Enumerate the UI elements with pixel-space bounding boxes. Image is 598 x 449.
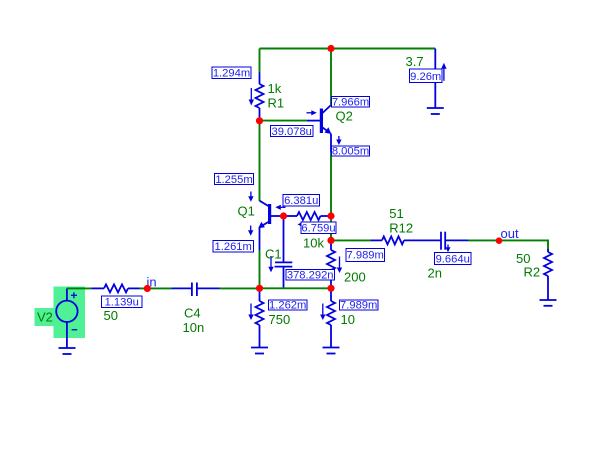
node dot Q1 base xyxy=(280,212,287,219)
wire Q2 emitter down xyxy=(331,134,342,217)
wire node2 to Q2 base xyxy=(260,120,308,122)
value box 1.261m xyxy=(213,241,254,254)
node dot R1 bottom xyxy=(256,117,263,124)
wire R1 top stub xyxy=(259,49,261,74)
node dot top xyxy=(327,45,334,52)
ground 10 xyxy=(323,348,340,354)
transistor Q1 xyxy=(258,201,285,229)
node dot bottom left xyxy=(256,285,263,292)
source V2 xyxy=(56,288,77,347)
value box 8.005m xyxy=(332,146,370,158)
arrow 1.261m xyxy=(248,226,253,236)
svg-text:750: 750 xyxy=(269,312,291,327)
wire Q2 collector to top rail xyxy=(330,49,332,106)
svg-text:10n: 10n xyxy=(183,320,205,335)
svg-text:1k: 1k xyxy=(268,81,282,96)
svg-text:1.139u: 1.139u xyxy=(105,297,139,309)
svg-text:9.664u: 9.664u xyxy=(436,253,470,265)
value box 9.664u xyxy=(435,253,472,266)
wire Q1 emitter down xyxy=(259,228,261,288)
node dot bottom right xyxy=(327,285,334,292)
svg-text:10: 10 xyxy=(341,312,355,327)
svg-text:1.261m: 1.261m xyxy=(215,241,252,253)
svg-text:9.26m: 9.26m xyxy=(410,71,441,83)
resistor R12 xyxy=(371,236,441,244)
wire V2 to source resistor xyxy=(67,287,92,289)
value box 6.381u xyxy=(283,195,320,208)
value box 1.255m xyxy=(215,174,254,186)
svg-text:Q1: Q1 xyxy=(238,204,255,219)
svg-text:51: 51 xyxy=(389,206,403,221)
node dot R12 tap xyxy=(327,237,334,244)
value box 7.989m 10 xyxy=(340,300,379,312)
wire bottom link xyxy=(260,287,332,289)
resistor R1 xyxy=(249,73,264,120)
svg-text:1.255m: 1.255m xyxy=(215,174,252,186)
wire C4 to node xyxy=(220,287,260,289)
svg-text:7.966m: 7.966m xyxy=(332,97,369,109)
svg-text:39.078u: 39.078u xyxy=(271,126,311,138)
value box 1.294m xyxy=(212,67,251,80)
resistor 10k xyxy=(284,212,332,227)
node dot 10k right xyxy=(327,212,334,219)
node dot in xyxy=(144,285,151,292)
ground battery xyxy=(427,108,444,114)
wire to in node xyxy=(140,287,172,289)
ground 750 xyxy=(251,348,268,354)
transistor Q2 xyxy=(307,105,332,134)
wire R12 branch xyxy=(331,239,372,241)
capacitor C4 xyxy=(172,283,220,297)
wire Q1 collector riser xyxy=(259,121,261,201)
value box 1.139u xyxy=(102,296,143,309)
value box 1.262m xyxy=(269,300,308,312)
value box 39.078u xyxy=(271,126,314,138)
node dot out xyxy=(496,237,503,244)
svg-text:6.759u: 6.759u xyxy=(301,223,335,235)
wire 10k right node down xyxy=(330,216,332,240)
svg-text:3.7: 3.7 xyxy=(406,54,424,69)
value box 9.26m xyxy=(410,69,443,83)
svg-text:R12: R12 xyxy=(389,221,413,236)
svg-text:8.005m: 8.005m xyxy=(332,146,369,158)
svg-text:378.292n: 378.292n xyxy=(287,270,334,282)
capacitor 2n xyxy=(441,232,469,253)
svg-text:50: 50 xyxy=(104,308,118,323)
svg-text:C4: C4 xyxy=(184,306,201,321)
value box 7.966m xyxy=(332,97,370,109)
svg-text:C1: C1 xyxy=(265,247,282,262)
svg-text:200: 200 xyxy=(344,270,366,285)
svg-text:R2: R2 xyxy=(524,265,541,280)
svg-text:R1: R1 xyxy=(268,96,285,111)
ground V2 xyxy=(59,348,76,354)
svg-text:1.262m: 1.262m xyxy=(269,300,306,312)
value box 378.292n xyxy=(286,270,335,282)
svg-text:10k: 10k xyxy=(303,236,324,251)
arrow 1.255m xyxy=(248,192,253,202)
ground R2 xyxy=(540,300,557,306)
svg-text:2n: 2n xyxy=(428,266,442,281)
selection highlight V2 xyxy=(54,287,86,339)
value box 6.759u xyxy=(301,222,336,235)
battery branch 3.7 xyxy=(435,49,446,109)
svg-text:out: out xyxy=(501,226,519,241)
value box 7.989m 200 xyxy=(346,249,385,262)
resistor 200 xyxy=(327,243,342,286)
svg-text:Q2: Q2 xyxy=(336,109,353,124)
resistor 50 source xyxy=(92,284,140,292)
resistor 750 xyxy=(248,292,263,348)
resistor R2 xyxy=(544,249,552,300)
wire top rail xyxy=(260,48,436,50)
svg-text:1.294m: 1.294m xyxy=(213,68,250,80)
capacitor C1 xyxy=(268,216,292,288)
resistor 10 xyxy=(320,292,335,348)
svg-text:7.989m: 7.989m xyxy=(347,250,384,262)
svg-text:6.381u: 6.381u xyxy=(284,195,318,207)
svg-text:7.989m: 7.989m xyxy=(340,300,377,312)
wire out xyxy=(469,240,549,250)
svg-text:V2: V2 xyxy=(37,310,53,325)
